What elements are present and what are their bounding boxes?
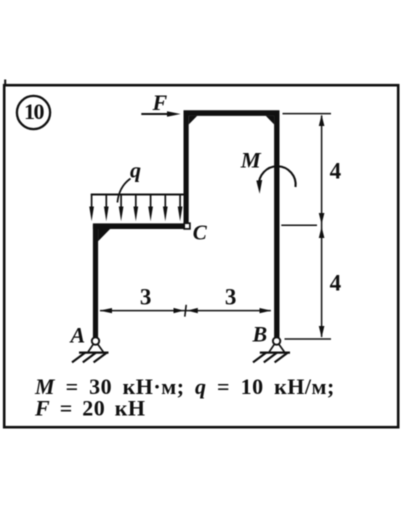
distributed load q arrows [92,194,181,210]
svg-text:F: F [152,90,168,115]
node C square marker [184,223,190,229]
support A (pin with hatched ground) [72,337,109,362]
distributed load q top line [91,194,186,196]
leader line from q label [117,179,130,203]
top beam (horizontal member) [184,110,280,116]
moment M arrowhead (pointing down at left end) [256,180,262,194]
right dimension extension lines [281,114,331,339]
corner fillet at top of member C (below top beam, right side) [189,116,198,125]
right dimension vertical line [321,116,323,338]
task number badge circle 10 [17,96,50,129]
vertical member C to top beam [184,112,189,228]
svg-text:A: A [69,323,86,348]
support B (pin with hatched ground) [253,337,290,362]
right dimension arrowheads [319,115,325,338]
svg-text:F = 20 кН: F = 20 кН [34,396,146,421]
beam A-C (horizontal member) [93,223,188,229]
border frame of figure [4,85,398,427]
svg-text:4: 4 [330,159,342,184]
center tick at mid dimension [185,305,186,317]
right column B (member) [274,111,279,340]
svg-text:4: 4 [330,271,342,296]
svg-text:10: 10 [24,99,45,124]
svg-text:3: 3 [225,285,237,310]
corner fillet at top of column A [98,229,110,241]
svg-text:3: 3 [140,285,152,310]
force F arrow [141,111,180,116]
corner fillet at top of right column (below top beam, left side) [266,116,275,125]
left column A (member) [93,225,98,340]
svg-text:B: B [252,322,268,347]
svg-text:q: q [130,158,141,183]
moment M arc [259,166,296,187]
svg-text:C: C [193,221,208,245]
bottom dimension line (3 + 3) [100,305,272,317]
svg-text:M: M [240,148,262,173]
